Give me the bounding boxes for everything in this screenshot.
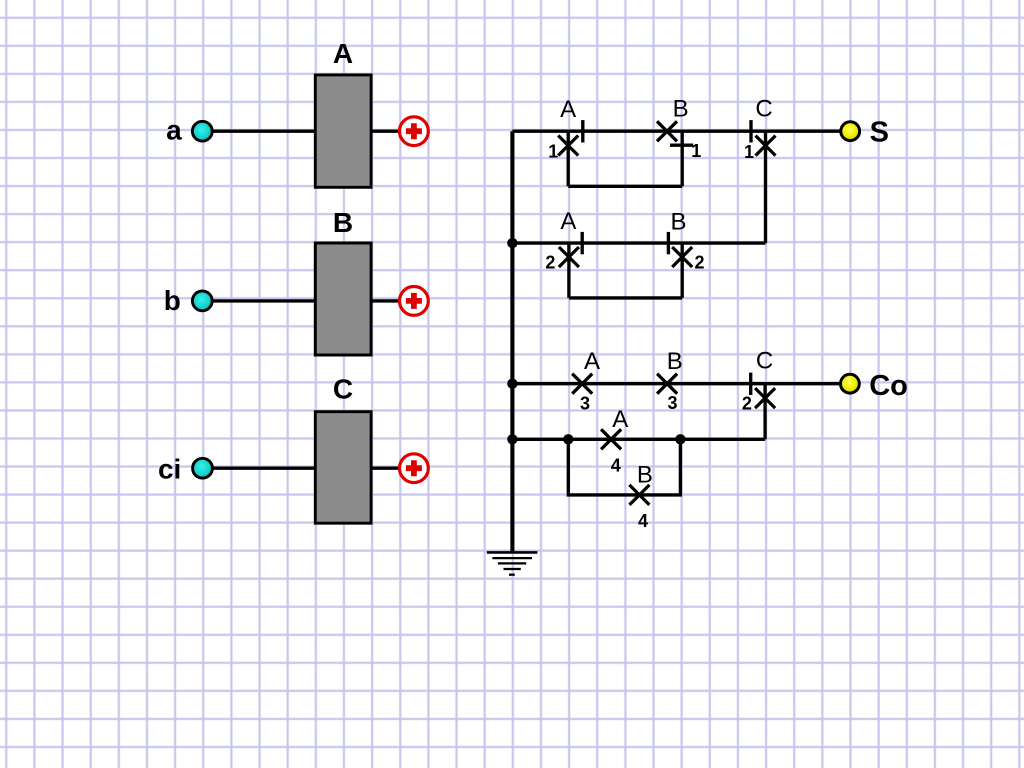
relay coil B	[315, 243, 371, 355]
svg-text:1: 1	[548, 141, 558, 161]
contact B3	[657, 374, 677, 394]
terminal a	[192, 121, 212, 141]
svg-text:A: A	[584, 348, 600, 375]
node bus-row4	[507, 434, 517, 444]
svg-text:ci: ci	[158, 454, 181, 485]
wire coil B to plus	[370, 299, 400, 302]
wire row S	[512, 130, 839, 133]
terminal b	[192, 291, 212, 311]
wire drop C1	[764, 131, 767, 243]
node row4-right	[675, 434, 685, 444]
plus terminal C	[400, 454, 429, 483]
svg-text:C: C	[755, 95, 772, 122]
wire loop1 bottom	[568, 185, 682, 188]
svg-text:b: b	[164, 285, 181, 316]
svg-text:3: 3	[667, 393, 677, 413]
svg-text:A: A	[333, 38, 353, 69]
svg-text:B: B	[673, 96, 689, 123]
wire coil A to plus	[370, 130, 400, 133]
svg-text:2: 2	[545, 253, 555, 273]
contact C1	[751, 120, 776, 156]
node bus-row3	[507, 379, 517, 389]
wire loop3	[568, 439, 680, 495]
contact B4	[629, 485, 649, 505]
svg-text:3: 3	[580, 393, 590, 413]
wire drop B2	[681, 243, 684, 298]
relay coil C	[315, 412, 371, 524]
wire drop B1	[681, 131, 684, 186]
svg-text:B: B	[333, 207, 353, 238]
contact B1	[657, 121, 693, 145]
terminal S	[841, 122, 860, 141]
node bus-row2	[507, 238, 517, 248]
contact B2	[668, 232, 692, 267]
terminal Co	[841, 374, 860, 393]
svg-text:A: A	[560, 96, 576, 123]
wire vertical bus	[510, 131, 514, 552]
contact A4	[601, 429, 621, 449]
svg-text:1: 1	[691, 141, 701, 161]
wire a to coil A	[206, 130, 316, 133]
svg-text:B: B	[637, 462, 653, 489]
plus terminal A	[400, 117, 429, 146]
wire drop A2	[567, 243, 570, 298]
wire loop2 bottom	[569, 296, 682, 299]
wire row 4	[512, 438, 765, 441]
wire row 2	[512, 241, 765, 244]
contact A3	[572, 374, 592, 394]
svg-text:Co: Co	[869, 370, 908, 402]
svg-text:B: B	[667, 348, 683, 375]
ground	[487, 552, 538, 574]
svg-text:4: 4	[638, 511, 648, 531]
contact A1	[558, 120, 583, 155]
contact A2	[559, 232, 582, 267]
plus terminal B	[400, 287, 429, 316]
svg-text:C: C	[333, 373, 353, 404]
wire row Co	[512, 382, 839, 385]
terminal ci	[193, 458, 213, 478]
svg-text:B: B	[670, 209, 686, 236]
svg-text:S: S	[870, 117, 889, 149]
svg-text:2: 2	[694, 253, 704, 273]
contact C2	[751, 373, 775, 409]
svg-text:a: a	[166, 114, 182, 145]
svg-text:C: C	[756, 347, 773, 374]
svg-text:A: A	[612, 406, 628, 433]
wire drop A1	[567, 131, 570, 186]
svg-text:2: 2	[742, 394, 752, 414]
svg-text:4: 4	[611, 456, 621, 476]
svg-text:A: A	[560, 208, 576, 235]
relay coil A	[315, 75, 371, 187]
wire coil C to plus	[370, 467, 400, 470]
wire drop C2	[763, 384, 766, 440]
svg-text:1: 1	[744, 142, 754, 162]
wire b to coil B	[206, 299, 316, 302]
node row4-left	[563, 434, 573, 444]
wire ci to coil C	[206, 467, 316, 470]
